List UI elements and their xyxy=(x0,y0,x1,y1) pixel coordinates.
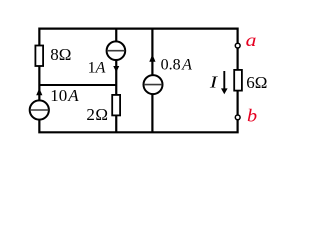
svg-text:10A: 10A xyxy=(50,86,79,105)
svg-text:6Ω: 6Ω xyxy=(246,73,267,92)
svg-text:2Ω: 2Ω xyxy=(86,105,108,124)
svg-text:a: a xyxy=(246,31,257,51)
svg-text:0.8A: 0.8A xyxy=(161,57,193,74)
svg-text:8Ω: 8Ω xyxy=(50,45,71,64)
svg-text:b: b xyxy=(247,106,257,126)
svg-text:1A: 1A xyxy=(88,59,106,76)
